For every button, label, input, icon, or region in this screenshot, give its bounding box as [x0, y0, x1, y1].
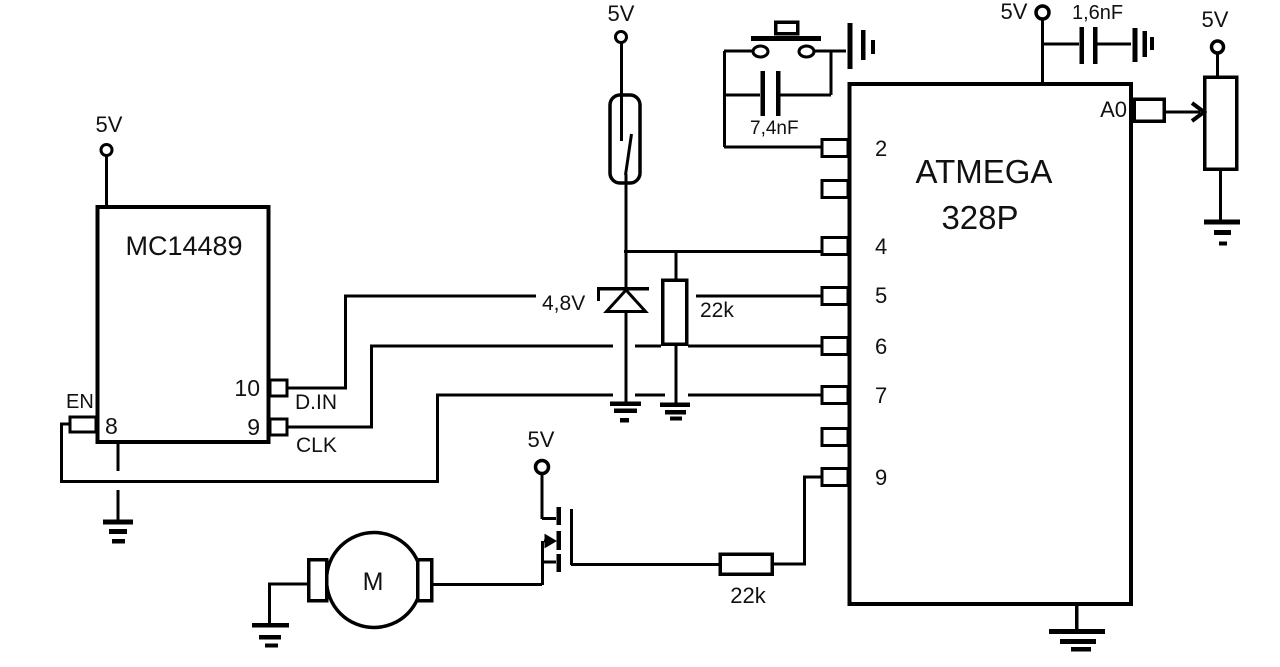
pin 4 pad	[822, 238, 848, 255]
pin 3 pad	[822, 181, 848, 198]
svg-text:328P: 328P	[941, 199, 1018, 236]
pin A0 pad	[1134, 99, 1164, 121]
svg-text:2: 2	[875, 136, 887, 161]
ground button (rotated)	[848, 23, 853, 69]
resistor R2 22k	[720, 554, 772, 574]
ground C2 (rotated)	[1133, 28, 1138, 62]
potentiometer RV1	[1205, 77, 1237, 169]
svg-text:7,4nF: 7,4nF	[750, 118, 799, 139]
svg-text:EN: EN	[66, 391, 94, 413]
resistor R1 22k	[675, 252, 678, 281]
svg-text:22k: 22k	[730, 583, 766, 608]
push button SW1	[723, 51, 726, 147]
svg-text:1,6nF: 1,6nF	[1072, 2, 1123, 24]
ground zener	[610, 401, 641, 406]
svg-text:A0: A0	[1100, 97, 1127, 122]
pin 5 pad	[822, 288, 848, 305]
wire EN from pin8	[62, 395, 614, 482]
svg-text:5: 5	[875, 283, 887, 308]
pin 6 pad	[822, 338, 848, 355]
wire reed to node	[625, 174, 628, 252]
svg-text:9: 9	[875, 465, 887, 490]
svg-text:5V: 5V	[96, 112, 123, 137]
ground motor	[252, 623, 289, 628]
wire motor to ground	[270, 584, 309, 623]
svg-text:5V: 5V	[1001, 0, 1028, 24]
svg-text:5V: 5V	[528, 427, 555, 452]
wire CLK to pin6 segment	[635, 345, 661, 348]
svg-text:M: M	[363, 568, 384, 596]
wire A0 to potentiometer	[1164, 111, 1200, 114]
wire 5V to C2	[1043, 43, 1080, 46]
wire EN to pin7 segment	[635, 394, 665, 397]
svg-text:4,8V: 4,8V	[542, 292, 585, 315]
wire gate to R2	[571, 563, 720, 566]
pin 9 pad	[270, 419, 287, 435]
pin 2 pad	[822, 140, 848, 157]
svg-text:7: 7	[875, 383, 887, 408]
wire CLK to pin6 segment	[688, 345, 822, 348]
wire button to pin2	[724, 146, 822, 149]
wiper arrow	[1192, 103, 1204, 121]
svg-text:6: 6	[875, 334, 887, 359]
svg-text:MC14489: MC14489	[125, 231, 242, 261]
svg-text:4: 4	[875, 234, 887, 259]
svg-text:22k: 22k	[700, 299, 734, 322]
svg-text:ATMEGA: ATMEGA	[916, 153, 1053, 190]
pin 8 pad	[70, 417, 96, 432]
transistor Q1 MOSFET	[541, 473, 544, 519]
svg-text:5V: 5V	[1202, 7, 1229, 32]
svg-text:5V: 5V	[608, 1, 635, 26]
pin 10 pad	[270, 380, 287, 396]
IC U1 MC14489	[98, 207, 269, 442]
wire CLK from pin9	[287, 346, 613, 427]
wire EN to pin7 segment	[688, 394, 822, 397]
svg-text:8: 8	[105, 413, 118, 439]
capacitor C1 7,4nF	[724, 94, 760, 97]
reed switch S1	[620, 43, 623, 141]
ground potentiometer	[1204, 220, 1240, 225]
svg-text:9: 9	[247, 414, 260, 440]
wire D.IN from pin10	[287, 296, 536, 388]
pin 8 pad ATMEGA	[822, 429, 848, 446]
svg-text:D.IN: D.IN	[295, 391, 337, 414]
svg-text:CLK: CLK	[296, 434, 337, 457]
pin 7 pad	[822, 387, 848, 404]
wire R2 to pin9	[772, 477, 822, 564]
wire to pin5	[696, 295, 822, 298]
wire motor to MOSFET	[431, 583, 542, 586]
pin 9 pad	[822, 469, 848, 486]
IC U2 ATMEGA 328P	[850, 84, 1132, 604]
ground ATMEGA	[1075, 604, 1079, 631]
node wire to pin4	[624, 250, 822, 253]
motor M1	[327, 533, 422, 628]
ground MC14489	[103, 520, 133, 525]
ground stub MC14489	[117, 442, 120, 471]
svg-text:10: 10	[234, 375, 260, 401]
ground R1	[660, 402, 690, 407]
zener diode D1 4,8V	[625, 252, 628, 288]
